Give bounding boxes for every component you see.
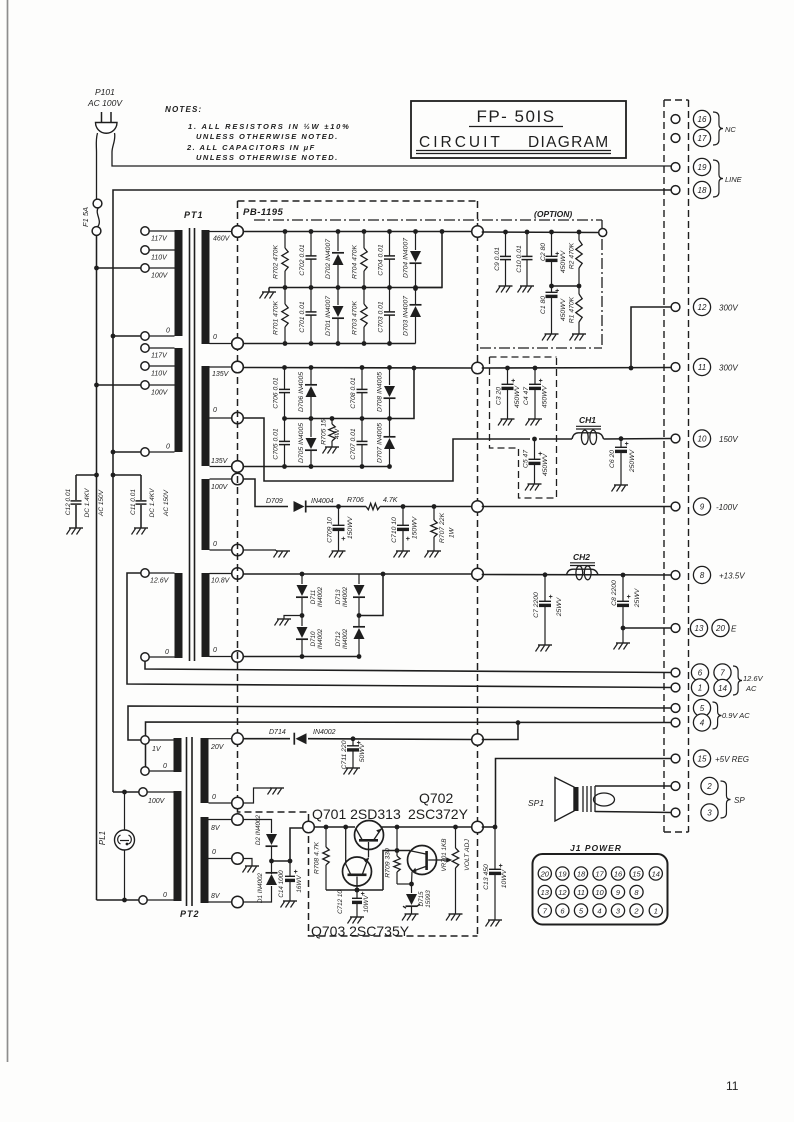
svg-text:19: 19 [558,870,567,879]
svg-text:450WV: 450WV [542,452,549,476]
PT1 12.6V winding [175,573,183,658]
svg-text:C3 20: C3 20 [496,387,503,405]
svg-text:D2 IN4002: D2 IN4002 [255,814,262,845]
wire: bridge output to rail [359,574,383,616]
svg-text:+: + [406,534,411,543]
svg-text:CH1: CH1 [579,415,596,425]
svg-text:19: 19 [698,163,707,172]
svg-text:-100V: -100V [716,503,738,512]
J1 pin 20 [538,867,551,880]
svg-text:C706 0.01: C706 0.01 [273,377,280,409]
lamp PL1 [122,790,127,795]
diode D707 IN4005 [389,419,391,438]
svg-text:CH2: CH2 [573,552,590,562]
wire: plug left prong down to fuse [96,133,97,199]
svg-text:IN4002: IN4002 [317,628,324,649]
svg-text:0.9V AC: 0.9V AC [722,711,750,720]
svg-text:1V: 1V [152,746,162,753]
svg-text:0: 0 [213,541,217,548]
diode D711 IN4002 [300,572,305,577]
svg-text:NOTES:: NOTES: [165,105,202,114]
resistor R707 22K 1W [432,504,437,509]
terminal 11 [693,358,710,375]
capacitor C3 20 450WV [505,366,510,371]
svg-text:25WV: 25WV [634,587,641,608]
svg-text:C10 0.01: C10 0.01 [516,245,523,273]
svg-text:17: 17 [595,870,604,879]
svg-text:+: + [294,869,298,876]
wire: 135V block top rail / 300V rail [243,367,473,370]
svg-text:D712: D712 [335,631,342,647]
diode D703 IN4007 [415,288,417,306]
svg-text:D709: D709 [266,498,283,505]
svg-text:C708 0.01: C708 0.01 [350,377,357,409]
wire: 150V takeoff from 0 tap [243,418,530,481]
svg-text:AC 150V: AC 150V [163,489,170,517]
capacitor C13 450 10WV [493,825,498,830]
svg-text:7: 7 [720,669,725,678]
svg-text:R2 470K: R2 470K [569,242,576,269]
svg-text:D710: D710 [310,631,317,647]
wire: 460V top rail [242,231,474,233]
svg-text:13: 13 [541,888,550,897]
svg-text:+: + [555,251,559,258]
terminal 16 [693,110,710,127]
svg-text:110V: 110V [151,255,168,262]
svg-text:C709 10: C709 10 [327,517,334,543]
svg-text:14: 14 [718,684,727,693]
svg-text:IN4002: IN4002 [342,628,349,649]
svg-text:SP: SP [734,796,745,805]
svg-text:0: 0 [166,328,170,335]
svg-text:6: 6 [698,669,703,678]
NC brace/label [713,112,723,145]
wire: 20V rail [243,738,290,740]
wire: C1/C2 mid node [552,285,580,287]
resistor R705 15 4W [330,416,335,421]
diode D701 IN4007 [337,288,339,306]
resistor R2 470K [577,230,582,235]
J1 pin 2 [630,904,643,917]
svg-text:IN4002: IN4002 [313,729,336,736]
capacitor C11 [111,473,116,478]
wire: -100V rail [306,506,366,508]
capacitor C706 0.01 [284,368,286,390]
svg-text:12.6V: 12.6V [150,578,170,585]
J1 pin 13 [538,885,551,898]
PT2 20V winding [201,738,209,803]
PT2 core [186,737,188,906]
terminal strip dashed outline [663,100,665,832]
svg-text:+: + [627,594,631,601]
svg-text:C6 20: C6 20 [609,450,616,468]
capacitor C703 0.01 [389,288,391,312]
svg-text:110V: 110V [151,371,168,378]
svg-text:300V: 300V [719,304,738,313]
diode D702 IN4007 [337,232,339,252]
svg-text:15: 15 [632,870,641,879]
svg-text:1. ALL RESISTORS IN ½W ±10%: 1. ALL RESISTORS IN ½W ±10% [188,122,351,131]
svg-text:D706 IN4005: D706 IN4005 [298,372,305,412]
wire: terminal 12 300V tap [631,307,672,368]
wire: regulator input rail [303,821,315,833]
svg-text:C7 2200: C7 2200 [533,592,540,618]
diode D713 IN4002 [358,574,360,584]
PT1 secondary taps [210,231,233,233]
svg-text:460V: 460V [213,236,231,243]
terminals 6/7/1/14 [691,664,708,681]
wire: bus A taps to 100V taps [94,266,99,271]
svg-text:+: + [549,594,553,601]
title box [411,101,626,158]
capacitor C709 10 150WV [336,504,341,509]
svg-text:Q701 2SD313: Q701 2SD313 [312,806,401,822]
choke CH1 [539,438,572,440]
svg-text:15993: 15993 [425,890,432,908]
svg-text:4W: 4W [334,428,341,439]
svg-text:C1 80: C1 80 [540,296,547,314]
wire: terminal 18 (LINE) left and down bus B [113,190,672,336]
capacitor C705 0.01 [284,419,286,442]
svg-text:C702 0.01: C702 0.01 [299,244,306,276]
svg-text:E: E [731,625,737,634]
svg-text:12: 12 [558,888,567,897]
svg-text:0: 0 [166,444,170,451]
svg-text:0: 0 [212,849,216,856]
plug P101 [101,112,103,123]
svg-text:LINE: LINE [725,175,743,184]
svg-text:IN4004: IN4004 [311,498,334,505]
svg-text:16: 16 [614,870,623,879]
terminal 12 [693,298,710,315]
svg-text:D1 IN4002: D1 IN4002 [257,872,264,903]
resistor R703 470K [363,288,365,305]
svg-text:12: 12 [698,303,707,312]
svg-text:PB-1195: PB-1195 [243,207,284,218]
terminal 15 [693,750,710,767]
ground: 20V winding 0 tap [243,788,271,803]
svg-text:8V: 8V [211,893,221,900]
svg-text:R703 470K: R703 470K [352,301,359,335]
svg-text:450WV: 450WV [514,384,521,408]
svg-text:0: 0 [212,794,216,801]
svg-text:C712 10: C712 10 [337,890,344,914]
wire: E terminal [621,626,626,631]
J1 pin 12 [556,885,569,898]
diode D1 IN4002 [243,886,272,902]
diode D709 IN4004 [294,501,305,512]
LINE brace/label [713,160,723,197]
svg-text:R706: R706 [347,497,364,504]
PT1 secondary windings bar [202,230,210,344]
svg-text:300V: 300V [719,364,738,373]
wire: 12.6V AC bus lower (12.6V tap) [127,573,672,688]
J1 pin 10 [593,885,606,898]
dashed box around C3/C4/C5 [490,356,557,358]
OPTION dash-dot boundary [254,219,602,221]
svg-text:1: 1 [698,684,702,693]
svg-text:D714: D714 [269,729,286,736]
svg-text:2SC372Y: 2SC372Y [408,806,469,822]
svg-text:R705 15: R705 15 [321,419,328,445]
svg-text:5: 5 [700,704,705,713]
svg-text:0: 0 [165,649,169,656]
svg-text:100V: 100V [211,484,229,491]
svg-text:0: 0 [163,763,167,770]
wire: Q702 base to VR701 wiper [428,859,448,861]
svg-text:+: + [341,534,346,543]
svg-text:F1 5A: F1 5A [81,207,90,227]
wire: plug right prong down and right to terminal 19 (LINE) [112,133,672,166]
wire: mid rail [269,287,442,289]
svg-text:10: 10 [698,435,707,444]
svg-text:15: 15 [698,755,707,764]
svg-text:D708 IN4005: D708 IN4005 [377,372,384,412]
page edge scan artifact [7,0,9,1062]
svg-text:R701 470K: R701 470K [273,301,280,335]
svg-text:20: 20 [540,870,550,879]
svg-text:D707 IN4005: D707 IN4005 [377,423,384,463]
svg-text:14: 14 [652,870,660,879]
svg-text:+13.5V: +13.5V [719,572,745,581]
wire: bus B to 0 taps, down to PT2 [111,334,116,339]
potentiometer VR701 1KB [453,825,458,830]
svg-text:C12 0.01: C12 0.01 [65,488,72,515]
wire: option rail [482,231,599,234]
svg-text:FP- 50IS: FP- 50IS [476,107,555,126]
svg-text:DIAGRAM: DIAGRAM [528,134,609,151]
svg-text:+: + [511,378,515,385]
capacitor C12 [94,473,99,478]
wire: bus A below fuse [96,235,98,900]
J1 pin 18 [574,867,587,880]
wire: 10.8V / +13.5V top rail [243,573,473,575]
svg-text:C707 0.01: C707 0.01 [350,428,357,460]
svg-text:16: 16 [698,115,707,124]
svg-text:J1 POWER: J1 POWER [570,843,622,853]
svg-text:0: 0 [213,407,217,414]
wire: Q702 emitter to zener node [411,872,414,884]
svg-text:R708 4.7K: R708 4.7K [314,841,321,874]
svg-text:450WV: 450WV [560,297,567,321]
svg-text:NC: NC [725,125,736,134]
svg-text:11: 11 [577,888,585,897]
resistor R708 4.7K [324,825,329,830]
wire: speaker to terminals 2/3 [595,785,672,787]
svg-text:+: + [539,378,543,385]
svg-text:0: 0 [213,647,217,654]
svg-text:12.6V: 12.6V [743,674,764,683]
svg-text:8: 8 [700,571,705,580]
capacitor C704 0.01 [389,232,391,256]
svg-text:117V: 117V [151,353,168,360]
svg-text:11: 11 [698,363,706,372]
svg-text:13: 13 [695,624,704,633]
svg-text:DC 1.4KV: DC 1.4KV [149,488,156,518]
terminal 19 [693,158,710,175]
wire: +5V REG output [494,868,496,870]
svg-text:AC 150V: AC 150V [98,489,105,517]
svg-text:C701 0.01: C701 0.01 [299,301,306,333]
svg-text:C9 0.01: C9 0.01 [494,247,501,271]
svg-text:250WV: 250WV [629,448,636,473]
wire: Q703 collector to rail [343,825,348,830]
capacitor C707 0.01 [361,419,363,442]
wire: D714 rail to 0.9V bus [308,738,473,741]
strip terminals [671,115,680,124]
svg-text:R707 22K: R707 22K [439,512,446,543]
wire: D1/D2 output to regulator rail [269,859,274,864]
J1 pin 11 [574,885,587,898]
svg-text:C13 450: C13 450 [483,864,490,890]
capacitor C10 0.01 [525,230,530,235]
svg-text:20: 20 [715,624,725,633]
svg-text:D702 IN4007: D702 IN4007 [325,239,332,279]
terminal 8 [693,566,710,583]
terminal 13/20 E [690,619,707,636]
svg-text:D715: D715 [418,891,425,907]
PT1 core [189,228,191,661]
svg-text:C705 0.01: C705 0.01 [273,428,280,460]
wire: bus A to PT2 0 [97,899,139,901]
capacitor C712 10 10WV [355,888,360,893]
J1 pin 3 [611,904,624,917]
resistor R709 330 [396,851,398,857]
PT1 primary winding 2 (117/110/100/0) [175,348,183,452]
svg-text:1: 1 [654,907,658,916]
svg-text:0: 0 [163,892,167,899]
svg-text:P101: P101 [95,87,115,97]
terminal 17 [693,129,710,146]
wire: 12.6V AC bus upper (0 tap) [145,661,672,672]
zener D715 15993 [411,884,413,893]
capacitor C1 80 450WV [551,286,553,292]
svg-text:117V: 117V [151,236,168,243]
capacitor C2 80 450WV [549,230,554,235]
ground at mid rail [268,288,270,293]
transistor Q703 [343,857,372,886]
capacitor C9 0.01 [503,230,508,235]
wire: 135V block mid rail with jog up [285,368,415,419]
svg-text:18: 18 [577,870,586,879]
svg-text:PL1: PL1 [98,831,107,845]
svg-text:25WV: 25WV [556,596,563,617]
capacitor C8 2200 25WV [621,573,626,578]
capacitor C14 1000 16WV [289,861,291,876]
J1 pin 1 [649,904,662,917]
resistor R704 470K [363,232,365,249]
capacitor C702 0.01 [310,232,312,256]
svg-text:150WV: 150WV [412,515,419,539]
svg-text:D701 IN4007: D701 IN4007 [325,296,332,336]
svg-text:PT1: PT1 [184,210,204,220]
resistor R702 470K [284,232,286,249]
PT2 100V winding [174,791,182,901]
svg-text:D705 IN4005: D705 IN4005 [298,423,305,463]
capacitor C710 10 150WV [401,504,406,509]
terminals 2/3 SP [701,777,718,794]
PT2 1V winding [174,738,182,772]
svg-text:135V: 135V [211,458,229,465]
svg-text:4: 4 [700,719,705,728]
svg-text:UNLESS OTHERWISE NOTED.: UNLESS OTHERWISE NOTED. [196,153,339,162]
wire: 0.9V AC bus lower (0 tap) [141,770,146,772]
diode D2 IN4002 [243,820,272,834]
svg-text:16WV: 16WV [296,875,303,893]
svg-text:450WV: 450WV [542,384,549,408]
wire: 0.9V AC bus upper (1V tap) [128,706,672,740]
terminal 9 [693,498,710,515]
PT1 primary winding 1 (117/110/100/0) [175,230,183,336]
svg-text:VOLT ADJ: VOLT ADJ [464,839,471,871]
svg-text:100V: 100V [148,798,166,805]
svg-text:1W: 1W [449,527,456,538]
J1 pin 4 [593,904,606,917]
svg-text:C11 0.01: C11 0.01 [130,489,137,515]
svg-text:10.8V: 10.8V [211,578,231,585]
svg-text:135V: 135V [212,371,230,378]
svg-text:+: + [555,288,559,295]
J1 pin 14 [649,867,662,880]
J1 pin 8 [630,885,643,898]
resistor R706 4.7K [366,503,380,509]
svg-text:4.7K: 4.7K [383,497,398,504]
svg-text:150WV: 150WV [347,515,354,539]
svg-text:2. ALL CAPACITORS IN μF: 2. ALL CAPACITORS IN μF [186,143,316,152]
svg-text:C14 1000: C14 1000 [278,870,285,898]
svg-text:100V: 100V [151,390,169,397]
ground: 100V winding 0 tap [243,549,276,551]
svg-text:AC 100V: AC 100V [87,98,123,108]
J1 pin 5 [574,904,587,917]
svg-text:VR701 1KB: VR701 1KB [441,839,448,872]
svg-text:R702 470K: R702 470K [273,245,280,279]
wire: bus B to PT2 100V [113,791,139,793]
svg-text:2: 2 [706,782,712,791]
svg-text:UNLESS OTHERWISE NOTED.: UNLESS OTHERWISE NOTED. [196,132,339,141]
svg-text:R709 330: R709 330 [385,848,392,878]
svg-text:10WV: 10WV [501,868,508,888]
fuse F1 5A [93,199,102,208]
terminal 18 [693,181,710,198]
svg-text:D704 IN4007: D704 IN4007 [403,238,410,278]
transistor Q702 [408,846,437,875]
J1 pin 6 [556,904,569,917]
transistor Q701 [355,821,384,850]
wire: 135V block bottom rail [243,466,390,468]
capacitor C5 47 450WV [532,437,537,442]
J1 pin 9 [611,885,624,898]
svg-text:D703 IN4007: D703 IN4007 [403,296,410,336]
svg-text:C711 220: C711 220 [341,740,348,769]
J1 pin 19 [556,867,569,880]
svg-text:C5 47: C5 47 [523,450,530,468]
wire: 0 bottom rail [243,343,416,345]
svg-text:C703 0.01: C703 0.01 [378,301,385,333]
svg-text:C4 47: C4 47 [523,387,530,405]
diode D705 IN4005 [310,419,312,438]
svg-text:(OPTION): (OPTION) [534,209,572,219]
svg-text:D713: D713 [335,589,342,605]
svg-text:IN4002: IN4002 [342,586,349,607]
svg-text:SP1: SP1 [528,798,544,808]
diode D704 IN4007 [415,232,417,251]
diode D714 IN4002 [296,733,307,744]
svg-text:18: 18 [698,186,707,195]
ground at bridge left mid [284,616,302,620]
svg-text:2: 2 [633,907,639,916]
capacitor C708 0.01 [361,368,363,390]
